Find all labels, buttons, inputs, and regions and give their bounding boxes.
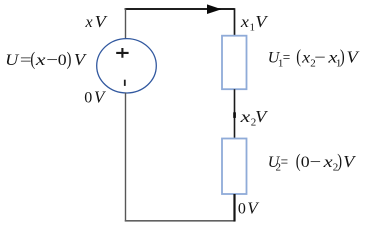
wire top (125, 8, 235, 10)
svg-text:x1V: x1V (240, 12, 270, 34)
svg-text:x2V: x2V (239, 107, 269, 129)
svg-text:0V: 0V (84, 87, 107, 106)
wire between resistors (234, 89, 236, 138)
current arrow (207, 4, 222, 14)
wire right upper (234, 8, 236, 36)
wire left upper (125, 8, 127, 38)
svg-text:U1=(x2−x1)V: U1=(x2−x1)V (268, 48, 361, 70)
svg-text:xV: xV (85, 12, 109, 31)
wire left lower (125, 93, 127, 222)
wire bottom (125, 220, 235, 222)
wire right lower (233, 194, 235, 222)
resistor U1 (222, 36, 247, 89)
plus terminal (116, 48, 128, 58)
minus terminal (124, 80, 126, 86)
svg-text:U=(x−0)V: U=(x−0)V (5, 50, 88, 70)
voltage source U (97, 39, 157, 93)
node x2 junction tick (233, 112, 236, 118)
svg-text:U2=(0−x2)V: U2=(0−x2)V (268, 152, 357, 174)
svg-text:0V: 0V (238, 199, 260, 218)
resistor U2 (222, 139, 247, 195)
